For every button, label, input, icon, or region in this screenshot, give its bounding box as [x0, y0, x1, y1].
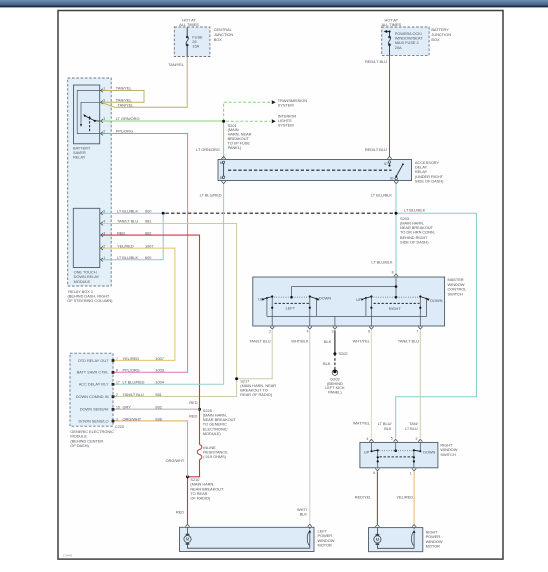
svg-text:PPL/ORG: PPL/ORG [116, 129, 133, 134]
svg-text:SIDE OF DASH): SIDE OF DASH) [400, 240, 429, 245]
svg-text:4: 4 [366, 437, 368, 441]
svg-text:LT GRN/ORG: LT GRN/ORG [116, 116, 140, 121]
svg-text:87: 87 [384, 162, 388, 166]
svg-text:5: 5 [103, 209, 105, 213]
right motor pin 2 chevron [412, 525, 416, 527]
left group DOWN switch arm [310, 297, 318, 300]
right window switch box [360, 442, 438, 467]
dotted contact rail right group [374, 296, 419, 298]
svg-text:BLK: BLK [384, 426, 392, 431]
wire BLK master pin 3 to S202 [334, 330, 336, 353]
svg-text:ALL TIMES: ALL TIMES [179, 22, 199, 27]
svg-text:(.015 OHMS): (.015 OHMS) [203, 454, 226, 459]
wire YEL/RED right switch pin 1 to right motor [413, 472, 415, 525]
svg-text:17: 17 [116, 381, 120, 385]
contact 87 [388, 161, 390, 163]
svg-text:1: 1 [103, 256, 105, 260]
svg-text:1004: 1004 [155, 380, 164, 385]
bus feed arrow in battery junction box [384, 30, 388, 33]
svg-text:DOWN SENS/LO: DOWN SENS/LO [78, 418, 108, 423]
right switch pin 6 chevron [375, 469, 379, 471]
svg-text:MOTOR: MOTOR [318, 542, 333, 547]
svg-text:MOTOR: MOTOR [426, 543, 441, 548]
svg-text:2: 2 [103, 130, 105, 134]
wire ORG/WHT GEM down sens lo to S210 [114, 421, 187, 477]
svg-text:TAN/YEL: TAN/YEL [116, 86, 133, 91]
svg-text:602: 602 [145, 230, 151, 235]
svg-text:30: 30 [390, 177, 394, 181]
svg-text:SYSTEM: SYSTEM [278, 123, 294, 128]
right switch pin 5 chevron [394, 439, 398, 441]
svg-text:DOWN: DOWN [423, 449, 435, 454]
svg-text:BLK: BLK [300, 511, 308, 516]
pin 5 feed to rail [395, 442, 397, 450]
svg-text:8: 8 [392, 271, 394, 275]
accessory relay pin 86 chevron [222, 156, 226, 158]
svg-text:LT BLU/BLK: LT BLU/BLK [371, 260, 392, 265]
diagram frame border [58, 11, 503, 560]
svg-text:LT BLU/BLK: LT BLU/BLK [117, 208, 138, 213]
dotted contact rail [380, 450, 413, 452]
wire RED/LT BLU from battery junction box to accessory relay 87 [385, 32, 390, 56]
left power window motor box M1 [180, 527, 315, 551]
svg-text:ORG/WHT: ORG/WHT [166, 458, 185, 463]
wire LT BLU/BLK module pin 5 [101, 212, 163, 214]
svg-text:BOX: BOX [431, 37, 440, 42]
svg-text:6: 6 [373, 471, 375, 475]
svg-text:OF DASH): OF DASH) [70, 443, 89, 448]
GEM connector squares C220 [112, 359, 115, 422]
svg-text:TAN/YEL: TAN/YEL [116, 97, 133, 102]
svg-text:RELAY: RELAY [73, 154, 86, 159]
svg-text:MODULE: MODULE [74, 279, 91, 284]
right motor M symbol [374, 528, 414, 549]
svg-text:LT GRN/ORG: LT GRN/ORG [196, 147, 220, 152]
svg-text:86: 86 [220, 161, 224, 165]
svg-text:RED: RED [117, 230, 125, 235]
generic electronic module dashed enclosure [70, 353, 113, 426]
svg-text:M: M [376, 537, 380, 542]
right group pivot drops [366, 298, 427, 316]
wire TAN/LT BLU master pin 7 to right switch pin 3 [419, 330, 421, 438]
svg-text:LT BLU/BLK: LT BLU/BLK [371, 192, 392, 197]
wire TAN/LT BLU S217 branch to master switch pin 2 [237, 330, 273, 378]
right group UP switch arm [362, 297, 371, 300]
DOWN arm [414, 450, 420, 451]
svg-text:RED: RED [189, 414, 197, 419]
internal feed bus [292, 287, 397, 298]
svg-text:RED/LT BLU: RED/LT BLU [365, 59, 387, 64]
svg-text:176445: 176445 [63, 554, 73, 558]
svg-text:RIGHT: RIGHT [389, 306, 402, 311]
right motor reversing arc [412, 532, 415, 546]
svg-text:992: 992 [155, 405, 161, 410]
svg-text:4: 4 [307, 329, 309, 333]
right switch pin 1 chevron [412, 469, 416, 471]
mechanical dashed link [89, 118, 91, 133]
feed from pin 8 [395, 277, 397, 297]
switch arm to pin3 [85, 116, 100, 121]
svg-text:SIDE OF DASH): SIDE OF DASH) [415, 178, 444, 183]
svg-text:2: 2 [103, 244, 105, 248]
UP arm [371, 450, 377, 451]
svg-text:1: 1 [103, 87, 105, 91]
svg-text:DOWN COMND IN: DOWN COMND IN [76, 394, 109, 399]
inner branch pin5 [81, 102, 101, 124]
master switch pin 3 chevron [333, 327, 337, 329]
svg-text:TAN/LT BLU: TAN/LT BLU [249, 339, 270, 344]
wire BLK dashed to ground [334, 354, 336, 370]
svg-text:YEL/RED: YEL/RED [396, 494, 413, 499]
wire WHT/YEL master pin 6 to right switch pin 4 [370, 330, 372, 438]
battery junction box dashed enclosure [382, 27, 429, 55]
svg-text:YEL/RED: YEL/RED [123, 356, 140, 361]
battery saver relay box [74, 85, 100, 144]
svg-text:LT BLU/RED: LT BLU/RED [123, 380, 145, 385]
wire TAN/YEL fuse 26 drop from CJB [186, 28, 188, 57]
svg-text:2: 2 [269, 329, 271, 333]
left motor reversing arc [307, 531, 310, 545]
dotted contact rail left group [274, 296, 308, 298]
svg-text:RED/YEL: RED/YEL [355, 494, 372, 499]
svg-text:1003: 1003 [155, 368, 164, 373]
wire TAN/LT BLU module pin 4 to S217 to GEM down comnd in [101, 224, 237, 397]
svg-text:LEFT: LEFT [286, 305, 296, 310]
svg-text:TAN/LT BLU: TAN/LT BLU [398, 339, 419, 344]
svg-text:ACC DELAY RLY: ACC DELAY RLY [79, 382, 109, 387]
left group mechanical dashed link [275, 302, 311, 304]
right power window motor box M2 [369, 528, 423, 552]
svg-text:TAN/LT BLU: TAN/LT BLU [117, 219, 138, 224]
svg-text:LT BLU/BLK: LT BLU/BLK [117, 255, 138, 260]
wire LT BLU/RED accessory relay 85 to GEM acc delay rly [114, 184, 223, 384]
accessory relay pin 30 chevron [394, 181, 398, 183]
svg-text:SWITCH: SWITCH [440, 452, 455, 457]
DOWN contact bar to pin 1 [413, 450, 415, 468]
splice S228 [198, 408, 201, 411]
left group DOWN contact bar to pin 4 [309, 296, 311, 326]
wire LT GRN/ORG dashed branch to interior lights system [226, 120, 271, 122]
coil between 86 and 85 [223, 163, 225, 178]
svg-text:BLK: BLK [323, 361, 331, 366]
arrow to transmission system [272, 100, 276, 104]
wire LT BLU/BLK S203 branch right-down to right window switch pin 5 [396, 213, 477, 438]
relay dashed linkage [228, 169, 392, 171]
svg-text:3: 3 [103, 117, 105, 121]
svg-text:PANEL): PANEL) [328, 390, 342, 395]
pin 4 feed to UP pivot [370, 442, 372, 451]
central junction box dashed enclosure [174, 27, 210, 57]
svg-text:20A: 20A [395, 45, 402, 50]
svg-text:981: 981 [155, 392, 161, 397]
wire LT GRN/ORG pin3 to S201 and accessory relay 86 [101, 121, 224, 160]
svg-text:LT BLU/RED: LT BLU/RED [200, 192, 222, 197]
wire YEL/RED module pin 2 to GEM otd relay out [101, 248, 175, 360]
right switch pin 4 chevron [369, 439, 373, 441]
svg-text:600: 600 [145, 208, 152, 213]
master switch pin 4 chevron [308, 327, 312, 329]
svg-text:UP: UP [364, 449, 370, 454]
svg-text:TO DR HRN CONN,: TO DR HRN CONN, [400, 230, 435, 235]
master switch pin 7 chevron [418, 327, 422, 329]
svg-text:LT BLU/BLK: LT BLU/BLK [404, 208, 425, 213]
svg-text:PPL/ORG: PPL/ORG [123, 368, 140, 373]
svg-text:OF RADIO): OF RADIO) [190, 496, 211, 501]
svg-text:1007: 1007 [145, 243, 154, 248]
svg-text:3: 3 [116, 417, 118, 421]
svg-text:RED: RED [176, 510, 184, 515]
left group UP contact bar to pin 2 [271, 296, 273, 326]
wire GRY GEM down sens hi to S228 [114, 408, 199, 410]
svg-text:C220: C220 [115, 424, 125, 429]
junction dot at module side of dashed link [162, 212, 165, 215]
right group mechanical dashed link [374, 302, 420, 304]
wire LT BLU/BLK accessory relay 30 down to S203 and master switch pin 8 [395, 184, 397, 273]
svg-text:15: 15 [116, 406, 120, 410]
relay arm to pin 30 [396, 164, 403, 176]
svg-text:SWITCH: SWITCH [448, 291, 463, 296]
fuse 26 symbol [186, 36, 189, 47]
svg-text:TAN/LT BLU: TAN/LT BLU [123, 392, 144, 397]
right group DOWN switch arm [420, 297, 428, 300]
svg-text:85: 85 [220, 176, 224, 180]
wire LT GRN/ORG dashed branch to transmission system [224, 102, 271, 121]
battery saver relay pin circles [101, 89, 103, 136]
wire PPL/ORG pin2 to GEM batt savr ctrl [101, 134, 188, 373]
maxi fuse 2 symbol [388, 36, 391, 46]
arrow to interior lights system [272, 119, 276, 123]
wire RED below resistor to S210 and left motor [188, 460, 200, 524]
one touch module pin circles [101, 211, 103, 261]
svg-text:M: M [186, 537, 190, 542]
svg-text:RED/LT BLU: RED/LT BLU [365, 147, 387, 152]
svg-text:UP: UP [258, 296, 264, 301]
svg-text:2: 2 [116, 393, 118, 397]
svg-text:3: 3 [416, 437, 418, 441]
left motor pin 2 chevron [308, 524, 312, 526]
svg-text:UP: UP [356, 297, 362, 302]
svg-text:TAN/YEL: TAN/YEL [168, 62, 185, 67]
master switch pin 6 chevron [369, 327, 373, 329]
right switch pin 3 chevron [418, 439, 422, 441]
right motor pin 1 chevron [375, 525, 379, 527]
svg-text:BOX: BOX [214, 37, 223, 42]
svg-text:ORG/WHT: ORG/WHT [123, 416, 142, 421]
svg-text:DOWN SENS/HI: DOWN SENS/HI [80, 407, 109, 412]
svg-text:3: 3 [103, 231, 105, 235]
right group DOWN contact bar to pin 7 [419, 296, 421, 326]
svg-text:BATT SAVR CTRL: BATT SAVR CTRL [77, 370, 110, 375]
splice S217 [235, 377, 238, 380]
svg-text:PANEL): PANEL) [228, 145, 242, 150]
pin 3 feed to DOWN pivot [419, 442, 421, 451]
svg-text:DOWN: DOWN [430, 298, 442, 303]
common ground bus to pin 3 [267, 316, 427, 326]
splice S202 [333, 352, 336, 355]
svg-text:6: 6 [368, 329, 370, 333]
svg-text:15A: 15A [192, 43, 199, 48]
svg-text:YEL/RED: YEL/RED [117, 243, 134, 248]
svg-text:GRY: GRY [123, 405, 132, 410]
master switch pin 2 chevron [270, 327, 274, 329]
left motor M symbol [184, 527, 310, 548]
coil loop pin1 to pin2 [77, 91, 101, 134]
svg-text:REAR OF RADIO): REAR OF RADIO) [240, 392, 272, 397]
svg-text:OTD RELAY OUT: OTD RELAY OUT [78, 358, 109, 363]
ground G202 [332, 370, 338, 376]
right group UP contact bar to pin 6 [370, 296, 372, 326]
svg-text:S202: S202 [339, 351, 348, 356]
svg-text:OF STEERING COLUMN): OF STEERING COLUMN) [67, 298, 113, 303]
svg-text:7: 7 [416, 329, 418, 333]
accessory relay pin 85 chevron [222, 181, 226, 183]
connector chevrons [185, 156, 422, 527]
svg-text:DOWN: DOWN [319, 296, 331, 301]
wire RED/YEL right switch pin 6 to right motor [376, 472, 378, 525]
svg-text:BLK: BLK [324, 339, 332, 344]
svg-text:5: 5 [391, 437, 393, 441]
master window control switch box [253, 277, 445, 326]
svg-text:1007: 1007 [155, 356, 164, 361]
left motor pin 1 chevron [185, 524, 189, 526]
top banner [0, 0, 548, 5]
svg-text:TAN/YEL: TAN/YEL [118, 103, 135, 108]
svg-text:WHT/BLK: WHT/BLK [291, 339, 309, 344]
svg-text:ALL TIMES: ALL TIMES [382, 22, 402, 27]
UP contact bar to pin 6 [377, 450, 379, 468]
mechanical dashed link [380, 456, 414, 458]
dashed link wire between one touch module and S203 [166, 212, 394, 214]
left group UP switch arm [263, 297, 272, 300]
svg-text:TAN/: TAN/ [409, 421, 418, 426]
svg-text:7: 7 [116, 357, 118, 361]
svg-text:3: 3 [332, 329, 334, 333]
master switch pin 8 chevron [394, 274, 398, 276]
left group pivot drops [267, 298, 317, 316]
svg-text:LT BLU: LT BLU [405, 426, 418, 431]
wire LT BLU/BLK module pin 1 up to junction [101, 214, 163, 260]
relay box 1 dashed enclosure [68, 78, 112, 286]
svg-text:8: 8 [116, 369, 118, 373]
wire TAN/YEL jumper pin1-pin5 battery saver relay [101, 91, 144, 103]
svg-text:4: 4 [103, 220, 105, 224]
wire WHT/BLK master pin 4 to left motor [309, 330, 311, 523]
accessory delay relay box [218, 160, 412, 181]
svg-text:600: 600 [145, 255, 152, 260]
one touch down relay module box U2 [73, 208, 100, 267]
svg-text:981: 981 [145, 219, 151, 224]
svg-text:998: 998 [155, 416, 161, 421]
svg-text:WHT/YEL: WHT/YEL [353, 339, 371, 344]
svg-text:5: 5 [103, 99, 105, 103]
splice S203 [395, 212, 398, 215]
svg-text:WHT/YEL: WHT/YEL [353, 421, 371, 426]
accessory relay pin 87 chevron [387, 156, 391, 158]
inline resistance symbol on red wire [197, 445, 202, 460]
svg-text:1: 1 [410, 472, 412, 476]
splice S201 [222, 120, 225, 123]
wire RED module pin 3 down to S228 [101, 235, 200, 444]
svg-text:MODULE): MODULE) [203, 431, 222, 436]
banner dark edge line [0, 5, 548, 7]
splice S210 [186, 475, 189, 478]
svg-text:RED: RED [189, 400, 197, 405]
svg-text:LT BLU/: LT BLU/ [378, 421, 393, 426]
svg-text:SYSTEM: SYSTEM [278, 103, 294, 108]
